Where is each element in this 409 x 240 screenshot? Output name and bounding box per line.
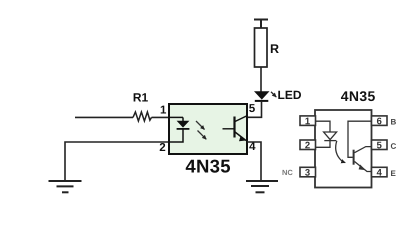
pin 6 box — [372, 116, 388, 126]
resistor R1 (zigzag) — [133, 112, 152, 121]
label LED — [278, 91, 301, 99]
optocoupler U1 box (4N35) — [169, 104, 247, 154]
wire LED to pin5 — [247, 101, 262, 118]
wire pin4 to ground — [247, 142, 261, 181]
wire input left (to R1) — [75, 116, 133, 118]
ground (left) — [49, 181, 82, 192]
label B — [391, 119, 396, 125]
ground (right) — [246, 181, 278, 192]
internal diode of package — [316, 121, 337, 147]
pin 2 box — [300, 140, 316, 150]
NC label — [283, 170, 293, 175]
label C — [391, 143, 396, 149]
pin 4 box — [372, 167, 388, 177]
wire R to LED — [260, 67, 262, 92]
internal LED of U1 — [170, 117, 189, 142]
LED D1 (indicator) — [254, 91, 270, 101]
terminal (top supply stub) — [254, 20, 268, 29]
light arrow inside package — [336, 141, 346, 163]
title 4N35 (package) — [341, 91, 375, 101]
pin label 2 — [160, 143, 166, 151]
pin 1 box — [300, 116, 316, 126]
pin label 4 — [249, 142, 255, 150]
resistor R (vertical) — [255, 28, 268, 67]
label E — [391, 171, 395, 177]
label R — [271, 44, 279, 53]
wire pin2 to ground — [65, 142, 169, 181]
LED light arrow — [271, 92, 276, 97]
internal transistor of package — [348, 121, 372, 171]
light arrows inside U1 — [196, 121, 206, 139]
pin label 1 — [161, 106, 166, 114]
label R1 — [134, 93, 148, 101]
wire R1 to pin1 — [152, 116, 170, 118]
pin label 5 — [249, 104, 255, 112]
pin 3 box — [300, 167, 316, 177]
phototransistor inside U1 — [223, 116, 247, 141]
label 4N35 (schematic) — [186, 160, 230, 173]
package body — [315, 110, 372, 188]
pin 5 box — [372, 140, 388, 150]
